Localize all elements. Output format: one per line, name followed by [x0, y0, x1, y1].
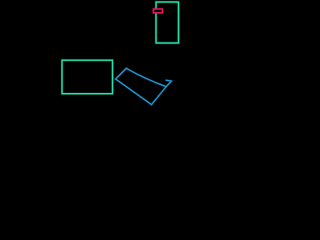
small green rectangle glow	[156, 2, 179, 43]
blue check-mark hook at right	[166, 80, 172, 87]
blue shape glow	[116, 68, 172, 104]
red rectangle	[154, 9, 163, 13]
large green rectangle	[62, 60, 113, 93]
red rectangle glow	[154, 9, 163, 13]
small green rectangle	[156, 2, 179, 43]
blue shape: quadrilateral body with curved top edge	[116, 68, 167, 104]
large green rectangle glow	[62, 60, 113, 93]
